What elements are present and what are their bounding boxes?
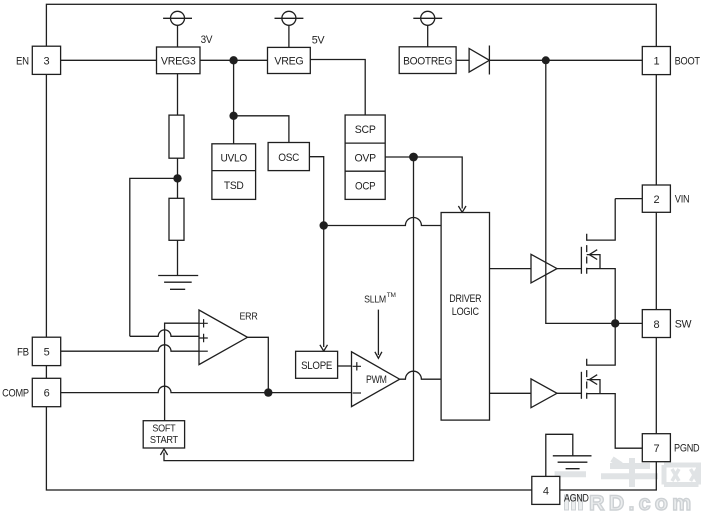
arrow into soft start bottom — [160, 449, 167, 455]
block SCP OVP OCP — [345, 115, 385, 199]
wire OVP line down to soft start — [164, 157, 414, 461]
buffer B1 — [531, 254, 557, 283]
svg-text:AGND: AGND — [564, 493, 589, 505]
terminal circle stem VREG3 — [177, 25, 179, 47]
wire BOOTREG to diode — [456, 59, 469, 61]
wire VREG to SCP — [310, 60, 365, 116]
wire VREG3 to R1 — [177, 74, 179, 115]
wire node to OSC — [234, 116, 289, 143]
svg-text:SLOPE: SLOPE — [301, 360, 332, 372]
wire R1 to R2 — [177, 158, 179, 198]
wire divider tap — [130, 178, 178, 336]
plus ERR input 2 — [199, 334, 207, 342]
pin 1 BOOT — [642, 47, 670, 75]
svg-text:RD.com: RD.com — [589, 491, 695, 511]
wire driver logic to buffer 1 — [490, 268, 532, 270]
minus ERR input 3 — [199, 350, 207, 352]
pin 4 AGND — [532, 476, 560, 504]
block UVLO TSD — [212, 144, 256, 200]
wire tap to ERR input 2 with hop — [130, 330, 199, 336]
svg-text:SW: SW — [675, 319, 692, 331]
transistor Q2 low side — [580, 372, 582, 399]
node VREG3-VREG — [229, 56, 237, 64]
svg-text:UVLO: UVLO — [220, 152, 247, 164]
wire node to UVLO — [233, 60, 235, 144]
svg-text:8: 8 — [653, 319, 659, 331]
wire FB to ERR input 3 with hop — [61, 345, 199, 351]
svg-text:4: 4 — [543, 486, 549, 498]
wire COMP line with hop to PWM minus — [61, 386, 352, 392]
wire diode to BOOT pin — [489, 59, 642, 61]
wire BOOT down to SW node — [546, 60, 615, 323]
block BOOTREG — [399, 47, 456, 74]
terminal circle stem BOOTREG — [427, 25, 429, 47]
plus PWM input — [353, 362, 361, 370]
block DRIVER LOGIC — [441, 213, 489, 421]
node SW — [611, 319, 619, 327]
svg-text:SOFT: SOFT — [152, 423, 176, 435]
watermark RD.com — [565, 491, 696, 511]
wire SLOPE to PWM plus — [338, 365, 352, 367]
pin 2 VIN — [642, 185, 670, 212]
svg-text:SCP: SCP — [355, 124, 376, 136]
pin 5 FB — [32, 337, 60, 365]
transistor Q1 high side — [580, 247, 582, 274]
terminal circle BOOT — [421, 11, 435, 25]
svg-text:OVP: OVP — [355, 152, 376, 164]
watermark 一牛网 — [555, 458, 699, 487]
wire AGND hook — [546, 434, 573, 476]
wire PWM output with hop — [400, 371, 441, 379]
op-amp PWM — [352, 352, 400, 407]
wire driver logic to buffer 2 — [490, 392, 532, 394]
svg-text:3V: 3V — [201, 34, 213, 46]
svg-text:VREG3: VREG3 — [161, 56, 196, 68]
minus PWM input — [353, 392, 361, 394]
pin 7 PGND — [642, 434, 670, 462]
arrow into driver logic top — [458, 206, 466, 212]
wire buffer 1 to gate — [557, 268, 581, 270]
svg-text:COMP: COMP — [2, 388, 29, 400]
resistor R1 — [169, 115, 184, 158]
svg-text:2: 2 — [653, 194, 659, 206]
node OSC out — [320, 221, 328, 229]
svg-text:BOOTREG: BOOTREG — [403, 55, 452, 67]
wire buffer 2 to gate — [557, 392, 581, 394]
block OSC — [268, 143, 309, 171]
svg-text:START: START — [150, 434, 179, 446]
block SOFT START — [143, 421, 184, 448]
svg-text:OCP: OCP — [355, 180, 375, 192]
wire R2 to ground — [177, 240, 179, 275]
block VREG — [268, 47, 311, 73]
pin 3 EN — [32, 46, 60, 74]
wire ERR output — [248, 337, 269, 392]
node BOOT — [542, 56, 550, 64]
resistor R2 — [169, 198, 184, 240]
svg-text:5V: 5V — [312, 35, 326, 47]
svg-text:TSD: TSD — [224, 180, 244, 192]
plus ERR input 1 — [199, 319, 207, 327]
svg-text:TM: TM — [387, 292, 396, 299]
svg-text:LOGIC: LOGIC — [452, 306, 479, 318]
terminal circle stem VREG — [288, 25, 290, 47]
svg-text:VREG: VREG — [274, 56, 303, 68]
svg-text:FB: FB — [17, 346, 29, 358]
svg-text:6: 6 — [44, 388, 50, 400]
svg-text:DRIVER: DRIVER — [449, 293, 481, 305]
svg-text:ERR: ERR — [240, 311, 259, 322]
SLLM arrow — [377, 310, 379, 355]
svg-text:PWM: PWM — [366, 374, 387, 386]
terminal circle 5V — [282, 11, 296, 25]
svg-text:BOOT: BOOT — [675, 55, 701, 67]
svg-text:OSC: OSC — [278, 152, 299, 164]
ground near AGND — [553, 456, 592, 469]
wire EN to VREG3 — [61, 59, 157, 61]
svg-text:PGND: PGND — [674, 443, 700, 455]
wire soft start to ERR input 1 — [165, 323, 199, 421]
arrow into SLOPE — [320, 345, 328, 351]
svg-text:1: 1 — [653, 56, 659, 68]
svg-text:EN: EN — [16, 55, 29, 67]
node UVLO-OSC — [229, 112, 237, 120]
svg-text:3: 3 — [43, 55, 49, 67]
buffer B2 — [531, 379, 557, 408]
wire OVP output — [385, 157, 462, 209]
wire OSC output down — [309, 157, 323, 347]
node OVP out — [409, 153, 418, 162]
svg-text:SLLM: SLLM — [364, 295, 386, 306]
ground below divider — [158, 276, 198, 290]
op-amp ERR — [199, 310, 248, 365]
block SLOPE — [296, 351, 338, 378]
node COMP-ERR — [264, 388, 272, 396]
block VREG3 — [157, 47, 201, 74]
wire node to driver logic with hop — [324, 218, 441, 226]
wire VREG3 to VREG — [200, 59, 268, 61]
node divider tap — [173, 174, 181, 182]
pin 8 SW — [642, 310, 670, 338]
diode D1 — [469, 49, 489, 73]
pin 6 COMP — [32, 378, 60, 406]
svg-text:5: 5 — [44, 347, 50, 359]
svg-text:7: 7 — [653, 443, 659, 455]
svg-text:VIN: VIN — [675, 194, 690, 206]
wire SW node to pin 8 — [615, 322, 642, 324]
terminal circle 3V — [171, 11, 185, 25]
